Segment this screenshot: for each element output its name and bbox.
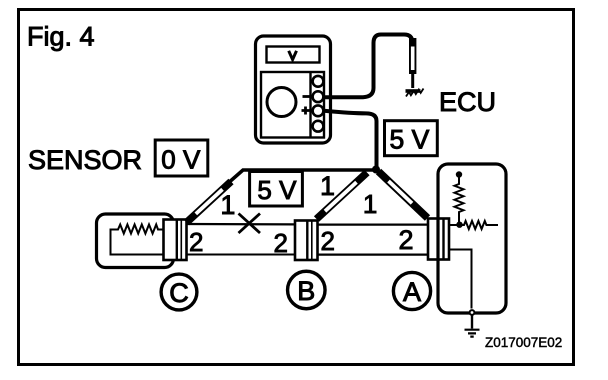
minus polarity mark (303, 95, 310, 98)
svg-text:5 V: 5 V (257, 175, 297, 205)
connector B housing (295, 221, 318, 261)
connector B identifier circle (288, 271, 326, 309)
ECU internal pull-up resistor (vertical) (455, 176, 464, 223)
ground lead below ECU (471, 316, 473, 329)
svg-text:2: 2 (189, 227, 203, 257)
chassis ground hatching under probe (406, 89, 421, 93)
connector A identifier circle (393, 272, 430, 309)
multimeter display window (267, 47, 320, 63)
voltage box 5 V at connector B (250, 172, 303, 207)
connector C divider (176, 220, 178, 261)
connector B divider (306, 221, 308, 261)
ground symbol bars (465, 330, 480, 337)
svg-text:2: 2 (399, 225, 414, 255)
test probe on ECU ground (vertical) (409, 38, 416, 88)
ECU 5V supply node dot (456, 171, 462, 177)
sensor body (97, 214, 174, 268)
multimeter jack 4 (313, 121, 324, 132)
voltage box 5 V at connector A (385, 121, 438, 156)
multimeter jack 2 (COM) (313, 91, 324, 102)
svg-text:1: 1 (320, 171, 335, 201)
ECU case (438, 164, 506, 313)
svg-text:SENSOR: SENSOR (28, 145, 142, 175)
multimeter display V indicator (289, 51, 297, 60)
test probe on connector C terminal 1 (187, 182, 232, 223)
wire, connector C to B terminal 2 (187, 254, 294, 256)
svg-text:2: 2 (321, 226, 335, 256)
wire, connector C to B terminal 1 (187, 223, 294, 226)
plus polarity mark (302, 107, 310, 115)
svg-text:Fig. 4: Fig. 4 (27, 21, 95, 51)
multimeter body (256, 36, 331, 143)
break mark X on wire C-B (239, 214, 261, 234)
multimeter jack column divider (309, 72, 311, 138)
ECU internal resistor (horizontal) (450, 221, 499, 229)
bus wire from probe junction to sensor probe (227, 170, 375, 185)
multimeter rotary dial (267, 88, 296, 117)
connector A divider (442, 219, 444, 260)
svg-text:B: B (297, 276, 315, 306)
wire from plus jack down to probe junction (324, 111, 377, 169)
probe junction node (372, 166, 380, 174)
voltage box 0 V at sensor (155, 140, 208, 176)
multimeter jack 1 (313, 76, 324, 87)
svg-text:0 V: 0 V (161, 145, 201, 175)
connector A housing (428, 219, 449, 260)
svg-text:Z017007E02: Z017007E02 (485, 335, 562, 350)
multimeter jack 3 (+) (313, 105, 324, 116)
connector C housing (164, 220, 187, 261)
ECU ground junction node (470, 310, 475, 315)
svg-text:ECU: ECU (439, 87, 496, 117)
svg-text:C: C (169, 278, 189, 308)
svg-text:1: 1 (220, 190, 235, 220)
sensor internal resistor (111, 225, 164, 255)
wire, connector B to A terminal 1 (318, 224, 428, 226)
wire from minus jack to test probe (324, 35, 413, 98)
test probe on connector B terminal 1 (317, 173, 368, 220)
ECU internal node dot at resistor junction (456, 222, 462, 228)
connector C identifier circle (161, 274, 197, 310)
connector B second divider (311, 221, 313, 261)
wire, connector B to A terminal 2 (318, 254, 428, 256)
svg-text:A: A (403, 277, 421, 307)
svg-text:5 V: 5 V (390, 124, 430, 154)
svg-text:1: 1 (363, 189, 377, 219)
test probe on connector A terminal 1 (379, 172, 428, 219)
multimeter lower panel (261, 72, 324, 138)
ground wire from connector A through ECU (450, 250, 472, 309)
svg-text:2: 2 (274, 228, 288, 258)
connector C second divider (180, 220, 182, 261)
